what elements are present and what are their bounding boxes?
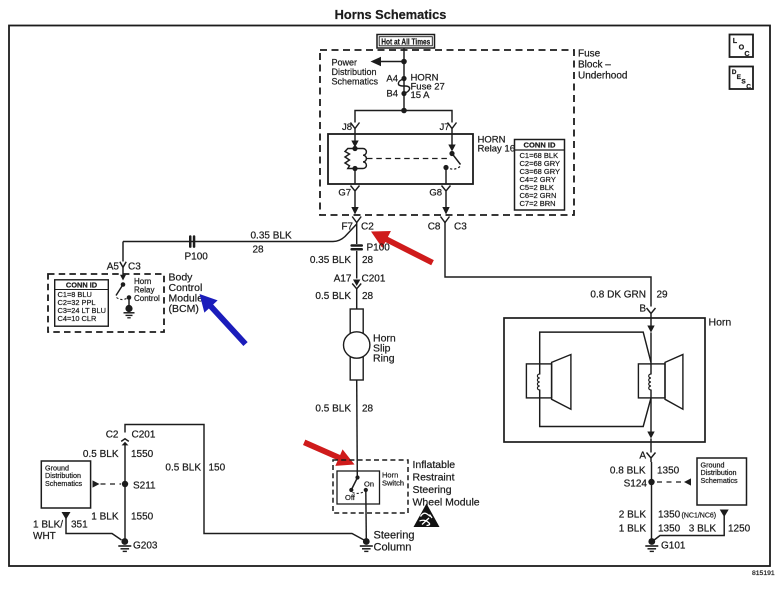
wire ground dist to G101 — [654, 510, 729, 541]
connector C8 C3 — [428, 217, 468, 233]
svg-text:1550: 1550 — [131, 449, 154, 460]
svg-text:0.8 DK GRN: 0.8 DK GRN — [590, 290, 646, 301]
fuse value label — [411, 73, 445, 102]
connector A5 C3 — [107, 262, 141, 273]
svg-text:CONN ID: CONN ID — [523, 141, 556, 150]
pin B4 label — [386, 89, 398, 100]
svg-text:0.8 BLK: 0.8 BLK — [610, 466, 646, 477]
wire label 0.8 DK GRN 29 — [590, 290, 668, 301]
wire through horn box center — [647, 333, 654, 443]
ground G203 — [118, 538, 158, 551]
warning triangle — [414, 504, 440, 528]
red arrow at F7/C2 — [367, 223, 437, 271]
svg-text:G8: G8 — [429, 188, 442, 199]
svg-text:Block –: Block – — [578, 60, 611, 71]
horn switch contacts — [345, 475, 374, 502]
node S124 — [624, 479, 655, 490]
connector F7 C2 — [341, 217, 374, 233]
svg-text:0.5 BLK: 0.5 BLK — [315, 291, 351, 302]
dashed link S211 to ground dist schematics — [93, 480, 122, 487]
svg-text:Relay 16: Relay 16 — [478, 144, 516, 155]
horn slip ring — [344, 309, 396, 380]
svg-text:C201: C201 — [362, 274, 386, 285]
ground distribution schematics box left — [41, 461, 90, 508]
wire switch to G8 — [445, 168, 447, 185]
svg-text:G203: G203 — [133, 541, 158, 552]
node bus junction — [401, 108, 407, 114]
wire coil to G7 — [354, 169, 356, 185]
wire into relay switch with down arrow — [448, 134, 455, 152]
wire from Hot at All Times down — [403, 48, 405, 111]
pin J8 — [342, 122, 360, 134]
svg-text:CONN ID: CONN ID — [66, 280, 98, 289]
red arrow at horn switch — [301, 434, 359, 473]
Fuse Block Underhood dashed box — [320, 50, 574, 215]
svg-text:1 BLK: 1 BLK — [619, 524, 647, 535]
svg-text:Hot at All Times: Hot at All Times — [381, 38, 431, 47]
pin A4 label — [386, 74, 398, 85]
svg-text:Fuse: Fuse — [578, 49, 601, 60]
wire label 0.35 BLK 28 horizontal — [251, 231, 292, 256]
svg-text:Horns Schematics: Horns Schematics — [335, 7, 447, 22]
svg-text:0.5 BLK: 0.5 BLK — [83, 449, 119, 460]
svg-text:(NC1/NC6): (NC1/NC6) — [682, 513, 717, 520]
svg-text:Restraint: Restraint — [413, 472, 455, 484]
svg-text:A: A — [639, 451, 646, 462]
relay coil — [345, 146, 366, 171]
wire label 0.5 BLK 28 — [315, 291, 373, 302]
svg-text:0.5 BLK: 0.5 BLK — [165, 463, 201, 474]
svg-text:Wheel Module: Wheel Module — [413, 497, 480, 509]
svg-text:Steering: Steering — [413, 484, 452, 496]
Power Distribution Schematics label — [332, 58, 379, 87]
svg-text:0.35 BLK: 0.35 BLK — [310, 255, 351, 266]
dashed relay control line — [367, 158, 447, 160]
wire bus to relay pins — [355, 111, 452, 123]
Fuse Block - Underhood label — [578, 49, 627, 82]
horn assembly box — [504, 318, 705, 442]
wire F7/C2 down to P100 — [356, 223, 358, 245]
wire label 0.5 BLK 28 lower — [315, 404, 373, 415]
wire to Power Distribution Schematics with left arrowhead — [371, 57, 405, 66]
svg-text:Steering: Steering — [374, 530, 415, 542]
wire C8/C3 to horn B — [445, 223, 651, 307]
svg-text:3 BLK: 3 BLK — [689, 524, 717, 535]
svg-text:815191: 815191 — [752, 570, 775, 577]
Hot at All Times label box — [377, 35, 435, 49]
svg-text:A4: A4 — [386, 74, 398, 85]
svg-text:G101: G101 — [661, 541, 686, 552]
svg-text:Schematics: Schematics — [701, 476, 739, 485]
horn switch label — [382, 471, 404, 488]
label Horn — [709, 317, 732, 329]
svg-text:C201: C201 — [132, 430, 156, 441]
svg-text:A17: A17 — [334, 274, 352, 285]
svg-text:(BCM): (BCM) — [169, 303, 199, 315]
svg-text:1550: 1550 — [131, 512, 154, 523]
title Horns Schematics — [335, 7, 447, 22]
dashed link S124 to ground dist schematics — [657, 478, 691, 485]
document number 815191 — [752, 570, 775, 577]
svg-text:A5: A5 — [107, 262, 120, 273]
wire P100 to C201 — [356, 251, 358, 279]
ground distribution schematics box right — [697, 458, 747, 505]
wire G7 down to fuse block edge — [351, 196, 358, 215]
svg-text:1350: 1350 — [658, 510, 681, 521]
svg-text:Switch: Switch — [382, 479, 404, 488]
pin A — [639, 442, 655, 462]
svg-text:351: 351 — [71, 520, 88, 531]
wire C201 to slip ring — [356, 289, 358, 310]
svg-text:Column: Column — [374, 542, 412, 554]
wire A to G101 — [651, 462, 653, 539]
svg-text:Schematics: Schematics — [45, 479, 83, 488]
svg-text:Power: Power — [332, 58, 358, 68]
horn inner loop wire — [540, 332, 651, 426]
CONN ID table BCM — [55, 280, 109, 326]
pin B — [639, 304, 655, 319]
pin J7 — [439, 122, 456, 134]
wire label 0.5 BLK 1550 — [83, 449, 154, 460]
svg-text:28: 28 — [362, 404, 374, 415]
svg-text:Underhood: Underhood — [578, 71, 627, 82]
fuse F27 HORN Fuse 27 15 A — [398, 76, 409, 96]
wire label 0.5 BLK 150 — [165, 463, 225, 474]
label Inflatable Restraint Steering Wheel Module — [413, 459, 480, 509]
svg-text:C2: C2 — [361, 222, 374, 233]
svg-text:Distribution: Distribution — [332, 67, 377, 77]
svg-text:0.5 BLK: 0.5 BLK — [315, 404, 351, 415]
wire slip ring to horn switch — [356, 380, 359, 477]
svg-text:C3: C3 — [454, 222, 467, 233]
svg-text:1 BLK/: 1 BLK/ — [33, 520, 63, 531]
svg-text:C2: C2 — [106, 430, 119, 441]
connector C2 C201 — [106, 430, 156, 446]
svg-text:Control: Control — [134, 294, 160, 303]
node junction at power dist tap — [401, 59, 407, 65]
pin G7 — [338, 186, 359, 199]
svg-text:Horn: Horn — [709, 317, 732, 329]
svg-text:On: On — [364, 480, 374, 489]
svg-text:Inflatable: Inflatable — [413, 459, 456, 471]
svg-text:1350: 1350 — [658, 524, 681, 535]
svg-text:C4=10 CLR: C4=10 CLR — [58, 314, 97, 323]
wire switch to steering column ground — [365, 490, 368, 539]
svg-text:B: B — [639, 304, 646, 315]
svg-text:S211: S211 — [133, 481, 156, 492]
left horn coil — [537, 374, 539, 390]
svg-text:S124: S124 — [624, 479, 648, 490]
pin G8 — [429, 186, 450, 199]
right horn coil — [649, 374, 651, 390]
svg-text:Off: Off — [345, 493, 356, 502]
svg-text:150: 150 — [209, 463, 226, 474]
DESC box — [730, 67, 754, 91]
svg-text:P100: P100 — [367, 243, 391, 254]
right horn speaker — [638, 355, 683, 410]
wire C2/C201 to S211 — [124, 445, 126, 539]
ground inside BCM — [124, 305, 135, 318]
node S211 — [122, 481, 156, 492]
ground G101 — [645, 538, 686, 551]
svg-text:0.35 BLK: 0.35 BLK — [251, 231, 292, 242]
wire label 1 BLK 1350 — [619, 524, 681, 535]
label Body Control Module (BCM) — [169, 272, 204, 316]
ground steering column — [360, 530, 415, 554]
svg-text:28: 28 — [253, 245, 265, 256]
label Horn Relay Control — [134, 277, 160, 303]
svg-text:1350: 1350 — [657, 466, 680, 477]
connector A17 C201 — [334, 274, 386, 289]
horn switch dashed box — [333, 460, 408, 513]
wire branch to BCM (diagonal and horizontal) — [123, 224, 357, 242]
svg-text:P100: P100 — [185, 252, 209, 263]
wire label 1 BLK/WHT 351 — [33, 520, 88, 543]
svg-text:F7: F7 — [341, 222, 353, 233]
svg-text:C: C — [746, 83, 751, 90]
horn switch inner box — [337, 471, 380, 504]
wire A5/C3 into BCM with arrow — [120, 267, 126, 280]
left horn speaker — [526, 355, 571, 410]
BCM dashed box — [48, 274, 164, 332]
svg-text:B4: B4 — [386, 89, 398, 100]
wire into horn box with arrow — [647, 318, 654, 333]
svg-text:C3: C3 — [128, 262, 141, 273]
svg-text:C7=2 BRN: C7=2 BRN — [520, 199, 556, 208]
svg-text:WHT: WHT — [33, 531, 56, 542]
svg-text:2 BLK: 2 BLK — [619, 510, 647, 521]
svg-text:Ring: Ring — [373, 353, 395, 365]
svg-text:1250: 1250 — [728, 524, 751, 535]
inline connector P100 (horizontal wire) — [185, 235, 209, 262]
wire label 3 BLK 1250 — [689, 524, 751, 535]
svg-text:28: 28 — [362, 291, 374, 302]
svg-text:15 A: 15 A — [411, 90, 431, 101]
wire G8 down to fuse block edge — [442, 196, 449, 215]
svg-text:Schematics: Schematics — [332, 77, 379, 87]
wire label 0.35 BLK 28 — [310, 255, 374, 266]
wire label 1 BLK 1550 — [91, 512, 153, 523]
wire label 2 BLK 1350 NC1/NC6 — [619, 510, 716, 521]
svg-text:L: L — [733, 36, 738, 45]
BCM horn relay control switch — [116, 282, 131, 305]
svg-text:29: 29 — [657, 290, 669, 301]
svg-text:C: C — [744, 49, 749, 58]
wire C201 ground loop (steering column to C2/C201) — [125, 425, 364, 541]
relay box HORN Relay 16 — [328, 134, 473, 184]
wire down to A5/C3 — [122, 242, 124, 262]
svg-text:G7: G7 — [338, 188, 351, 199]
wire into relay coil with down arrow — [351, 134, 358, 148]
LOC box — [730, 35, 754, 59]
wire label 0.8 BLK 1350 — [610, 466, 680, 477]
svg-text:C8: C8 — [428, 222, 441, 233]
CONN ID table fuse block — [515, 140, 565, 211]
svg-text:1 BLK: 1 BLK — [91, 512, 119, 523]
svg-text:28: 28 — [362, 255, 374, 266]
inline connector P100 (vertical wire) — [350, 243, 390, 254]
blue arrow at BCM — [193, 288, 252, 350]
relay switch — [443, 151, 460, 170]
wire ground dist left to G203 — [62, 512, 122, 540]
